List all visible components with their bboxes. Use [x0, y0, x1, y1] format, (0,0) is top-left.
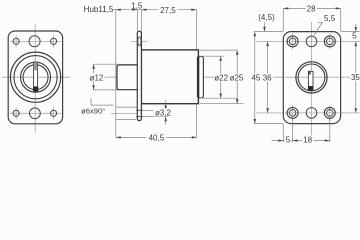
arrow 40,5 left: [116, 136, 121, 138]
ø3,2 upper extension line: [143, 109, 169, 111]
ø12 leader tail tick: [90, 98, 92, 105]
dimension 45 bottom extension: [254, 123, 283, 125]
bottom center hole view3: [306, 108, 317, 119]
bottom dim extension plate edge: [282, 124, 284, 142]
svg-text:ø12: ø12: [90, 73, 104, 82]
top dimension line: [113, 9, 196, 11]
arrow ø3,2 up: [164, 117, 167, 122]
label 35: [350, 73, 360, 81]
28 left extension line: [282, 8, 284, 31]
svg-text:35: 35: [351, 73, 360, 82]
ø12 leader tail horizontal: [91, 104, 113, 106]
cylinder ring inner view3: [298, 64, 325, 91]
horizontal centerline bottom hole row view1: [10, 112, 61, 114]
bottom right counterbored hole outer view3: [324, 107, 335, 118]
label 40,5: [147, 133, 167, 141]
bottom left counterbored hole inner view3: [289, 110, 296, 117]
flange bottom countersink upper line view2: [116, 106, 137, 108]
arrow ø25 bottom: [236, 99, 239, 104]
cylinder outer circle view1: [10, 52, 60, 102]
svg-text:ø3,2: ø3,2: [155, 109, 172, 118]
ø3,2 dimension line lower: [165, 117, 167, 125]
flange bottom hole lower edge view2: [136, 116, 142, 118]
body end extension line lower: [196, 104, 198, 138]
svg-text:45: 45: [251, 73, 260, 82]
svg-text:18: 18: [303, 135, 312, 144]
arrow 36 bottom: [266, 108, 269, 113]
dimension 28 line: [283, 7, 340, 9]
svg-text:ø6x90°: ø6x90°: [81, 107, 105, 116]
bottom dim extension right hole: [329, 119, 331, 142]
bottom hole row centerline view3: [256, 112, 360, 114]
key slot dark bottom view1: [33, 86, 38, 91]
flange bottom hole centerline view2: [111, 112, 142, 114]
svg-text:Hub11,5: Hub11,5: [84, 5, 114, 14]
ø22 top extension line: [200, 55, 225, 57]
label 45: [251, 73, 262, 81]
dimension 35 line (shared with 5 dim): [355, 41, 357, 113]
horizontal centerline top hole row view1: [10, 40, 61, 42]
top right counterbored hole inner view3: [327, 38, 334, 45]
corner hole tick marks view1: [16, 35, 54, 119]
backplate outline view3: [283, 32, 340, 124]
arrow ø12 top: [92, 64, 95, 69]
plate top extension line right: [341, 31, 360, 33]
label 36: [262, 73, 273, 81]
dimension Hub11,5 extension line: [115, 10, 117, 138]
bottom dim extension left hole: [292, 119, 294, 142]
flange back extension line: [140, 10, 142, 32]
svg-text:5: 5: [286, 135, 291, 144]
label 28: [306, 5, 318, 13]
arrow ø3,2 down: [164, 106, 167, 111]
svg-text:40,5: 40,5: [149, 134, 165, 143]
svg-text:(4,5): (4,5): [258, 13, 275, 22]
top center hole view1: [29, 36, 40, 47]
top hole row centerline view3: [256, 40, 360, 42]
re-draw row centerlines inside plate view3: [285, 33, 339, 123]
label ø12: [89, 73, 105, 81]
bottom left counterbored hole outer view3: [287, 107, 298, 118]
ø22 bottom extension line: [200, 97, 238, 99]
top left counterbored hole outer view3: [287, 36, 298, 47]
arrow 45 top: [254, 32, 257, 37]
corner hole tick marks view3: [293, 33, 330, 121]
arrow 28 right: [336, 7, 341, 9]
key slot gray top view1: [34, 62, 38, 70]
arrow 5 down: [355, 27, 358, 32]
svg-text:5: 5: [352, 32, 357, 41]
dimension 45 line: [254, 32, 256, 124]
bottom dimension line 5/18: [272, 140, 330, 142]
top right counterbored hole outer view3: [324, 36, 335, 47]
flange bottom countersink lower line view2: [116, 119, 136, 121]
dimension 40,5 line: [116, 136, 197, 138]
bottom left mounting hole view1: [13, 110, 19, 116]
key slot view1: [34, 62, 38, 92]
lock body view2: [141, 50, 198, 104]
flange front extension line: [136, 10, 138, 32]
top left mounting hole view1: [13, 38, 19, 44]
arrow ø25 top: [236, 50, 239, 55]
flange bottom hole upper edge view2: [136, 109, 142, 111]
label ø22: [214, 73, 229, 81]
top left counterbored hole inner view3: [289, 38, 296, 45]
ø12 bottom extension line: [93, 89, 118, 91]
vertical centerline view3: [310, 22, 312, 141]
body end extension line upper: [196, 10, 198, 50]
5,5 leader line: [314, 22, 322, 35]
ø25 top extension line: [200, 49, 237, 51]
svg-text:27,5: 27,5: [160, 6, 176, 15]
arrow 45 bottom: [254, 119, 257, 124]
svg-text:1,5: 1,5: [131, 1, 143, 10]
label 27,5: [159, 6, 178, 14]
arrow 18 right: [325, 139, 330, 141]
bottom right mounting hole view1: [51, 110, 57, 116]
dimension ø12 line: [93, 64, 95, 90]
ø3,2 dimension line upper: [165, 100, 167, 110]
vertical centerline view1: [34, 24, 36, 133]
horizontal centerline middle view1: [2, 76, 70, 78]
key slot dark tab view3: [309, 72, 311, 75]
arrow 27,5 right: [191, 9, 196, 11]
faceplate outline view1: [8, 31, 62, 124]
flange plate edge-on view2: [137, 31, 141, 120]
plug ø12 (front cylinder) view2: [117, 65, 139, 90]
arrow 36 top: [266, 41, 269, 46]
dimension 45 top extension: [254, 31, 283, 33]
svg-text:5,5: 5,5: [324, 14, 336, 23]
label 18 bottom: [302, 135, 314, 143]
arrow 35/5 shared up: [355, 41, 358, 46]
label ø25: [229, 73, 244, 81]
arrow 18 left: [293, 139, 298, 141]
ø12 top extension line: [93, 63, 118, 65]
horizontal centerline view3: [269, 76, 360, 78]
svg-text:36: 36: [263, 73, 272, 82]
arrow 40,5 right: [192, 136, 197, 138]
(4,5) leader line: [264, 23, 266, 32]
flange top hole edge-on ellipse view2: [138, 37, 141, 46]
5,5 leader dash: [318, 21, 323, 23]
dimension 36 line: [267, 41, 269, 113]
svg-text:ø22: ø22: [214, 73, 228, 82]
key slot view3: [308, 71, 313, 90]
svg-text:28: 28: [307, 5, 316, 14]
plug circle view1: [21, 62, 51, 92]
label 5 bottom: [285, 135, 291, 143]
cylinder ring outer view3: [296, 62, 327, 93]
arrow 28 left: [283, 7, 288, 9]
flange top hole centerline view2: [131, 40, 148, 42]
bottom right counterbored hole inner view3: [327, 110, 334, 117]
horizontal centerline view2: [90, 76, 240, 78]
arrow bottom 5 left: [278, 139, 283, 141]
dimension 5 top-right upper segment: [355, 24, 357, 32]
arrow hub right / 1,5 left: [132, 9, 137, 11]
ø3,2 lower extension line: [143, 116, 169, 118]
ø25 bottom extension line: [200, 103, 244, 105]
arrow ø12 bottom: [92, 85, 95, 90]
top center hole view3: [306, 36, 317, 47]
bottom center hole view1: [30, 108, 41, 119]
ø22 dimension line: [220, 56, 222, 98]
arrow ø22 top: [219, 56, 222, 61]
cylinder second circle view1: [14, 56, 57, 99]
key slot dark bottom view3: [308, 86, 314, 90]
body end face thick line view2: [197, 57, 199, 98]
rear cap bump view2: [198, 56, 203, 98]
arrow (4,5) down: [263, 27, 266, 32]
plug inner circle view1: [23, 65, 48, 90]
arrow hub left: [116, 9, 121, 11]
label ø3,2: [154, 109, 173, 117]
28 right extension line: [340, 8, 342, 31]
arrow ø22 bottom: [219, 94, 222, 99]
arrow 1,5 right: [141, 9, 146, 11]
ø25 dimension line: [236, 50, 238, 104]
top right mounting hole view1: [51, 38, 57, 44]
svg-text:ø25: ø25: [230, 73, 244, 82]
arrow 35 bottom: [355, 108, 358, 113]
